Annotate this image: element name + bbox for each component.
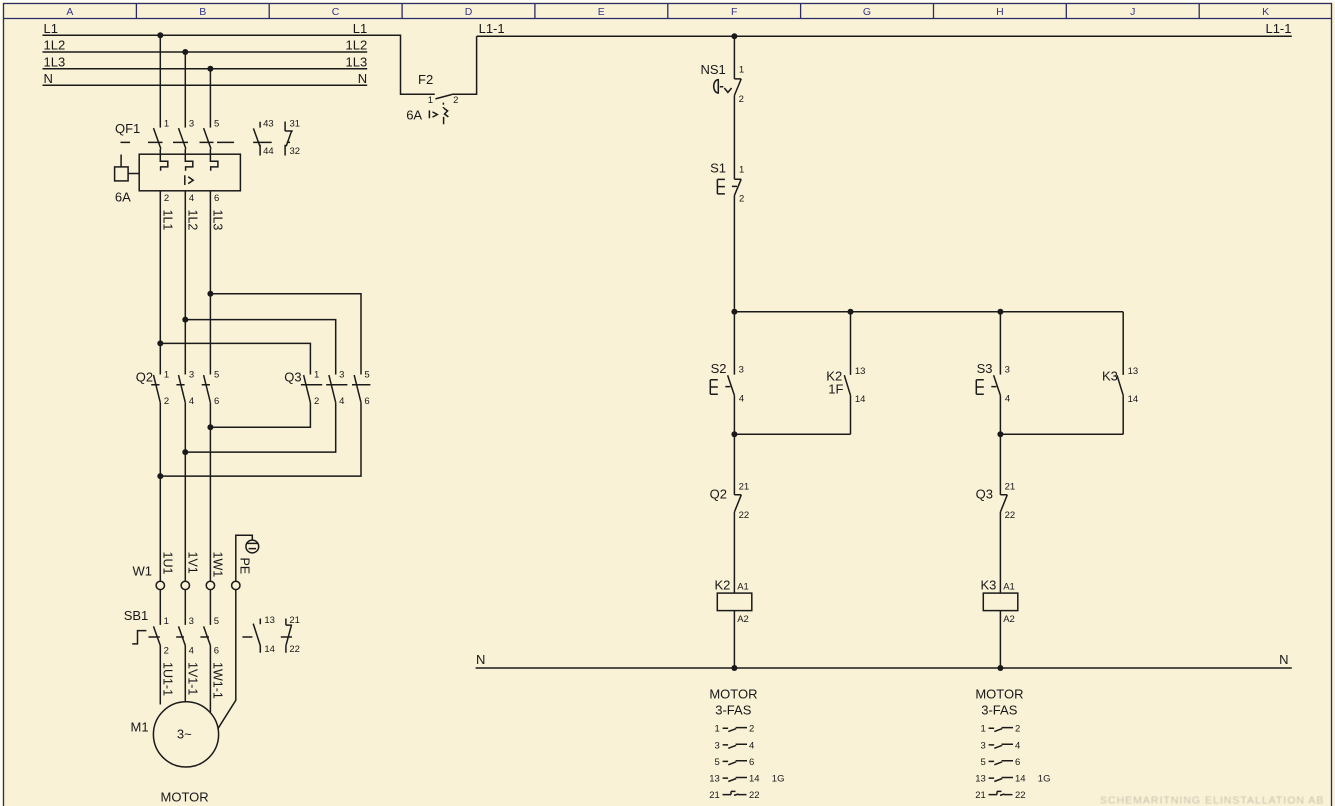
wire L1-1 top rail [477,35,1292,37]
svg-text:Q2: Q2 [710,487,727,502]
wire QF1 pole 2 lower stub [184,149,186,154]
wire S3 to Q3 aux [999,395,1001,494]
node L1 tap junction [157,32,163,38]
terminal W1 circle 1W1 [206,581,214,589]
wire QF1 pole 3 lower stub [209,149,211,154]
svg-text:5: 5 [981,757,986,768]
svg-text:N: N [1279,652,1288,667]
switch NS1 rotary actuator [714,80,719,93]
terminal W1 circle 1V1 [181,581,189,589]
breaker F2 latch hook [444,108,449,124]
svg-text:14: 14 [855,394,866,405]
svg-text:14: 14 [749,774,760,785]
wire control drop to NS1 [733,36,735,79]
node control rail 2 junction H [997,431,1003,437]
svg-text:3-FAS: 3-FAS [981,703,1017,718]
svg-text:E: E [598,6,605,18]
svg-text:6A: 6A [406,108,422,123]
svg-text:21: 21 [975,790,986,801]
crossref K2 mini contact row 5 NC [723,791,747,795]
node crossunder junction 2 [182,449,188,455]
switch SB1 pole 3 blade [204,626,211,645]
wire control rail 2 left [734,433,850,435]
wire 1L3 bus [43,68,368,70]
breaker QF1 I> symbol [185,175,193,185]
svg-text:S3: S3 [977,361,993,376]
svg-text:3: 3 [189,370,194,381]
crossref K3 mini contact row 2 [989,744,1013,748]
svg-text:A: A [66,6,73,18]
wire crossover top 2 [185,320,335,375]
wire QF1 out 1 [159,191,161,375]
svg-text:1V1: 1V1 [185,552,199,574]
switch SB1 pole 2 blade [179,626,186,645]
wire SB1 out 1 to motor [159,646,161,705]
wire QF1 operator link [128,173,139,175]
node crossover tap 1L1 [157,340,163,346]
svg-text:3: 3 [189,616,194,627]
svg-text:5: 5 [214,616,219,627]
wire 1L2 bus [43,51,368,53]
switch NS1 linkage [720,87,732,93]
svg-text:1: 1 [164,370,169,381]
svg-text:QF1: QF1 [115,121,140,136]
svg-text:2: 2 [739,194,744,205]
wire SB1 out 3 to motor [209,646,211,713]
switch S1 pushbutton actuator E [717,179,737,194]
svg-text:1L2: 1L2 [44,38,66,53]
switch SB1 aux contact 13-14 [253,619,260,653]
contactor Q2 pole 3 blade [204,375,211,403]
contactor Q3 pole 2 blade [329,375,336,403]
wire control rail 2 right [1000,433,1123,435]
wire Q3 out 2 crossunder [185,403,335,453]
svg-text:S2: S2 [711,361,727,376]
svg-text:A2: A2 [1003,614,1015,625]
earth symbol PE [246,540,259,553]
wire Q2 aux to K2 coil [733,512,735,593]
svg-text:C: C [332,6,340,18]
svg-text:22: 22 [1015,790,1026,801]
svg-text:6: 6 [1015,757,1020,768]
svg-text:44: 44 [263,146,274,157]
svg-text:2: 2 [164,396,169,407]
breaker QF1 mechanical linkage dashed [121,141,291,143]
wire SB1 in 2 [184,590,186,625]
svg-text:M1: M1 [131,720,149,735]
crossref K3 mini contact row 4 [989,778,1013,782]
svg-text:A1: A1 [737,582,749,593]
crossref K2 mini contact row 2 [723,744,747,748]
svg-text:D: D [465,6,473,18]
svg-text:1: 1 [715,724,720,735]
wire QF1 out 3 [209,191,211,375]
svg-text:Q2: Q2 [136,370,153,385]
contactor Q3 pole 3 blade [354,375,361,403]
svg-text:3: 3 [339,370,344,381]
svg-text:G: G [863,6,871,18]
svg-text:4: 4 [1005,393,1010,404]
breaker QF1 operator box 6A [115,167,129,181]
svg-text:1G: 1G [772,774,785,785]
contactor Q2 pole 1 blade [154,375,161,403]
wire K2 coil to N [733,611,735,668]
wire Q2 out 1 [159,403,161,582]
terminal W1 circle PE [232,581,240,589]
wire SB1 in 1 [159,590,161,625]
svg-text:6: 6 [364,396,369,407]
svg-text:L1-1: L1-1 [1265,21,1291,36]
contact Q2 21-22 NC [734,495,741,512]
svg-text:22: 22 [1005,510,1016,521]
svg-text:22: 22 [289,644,300,655]
node crossunder junction 3 [157,473,163,479]
svg-text:3: 3 [715,740,720,751]
svg-text:1: 1 [739,65,744,76]
svg-text:1V1-1: 1V1-1 [185,662,199,695]
switch S2 pushbutton actuator E [710,380,730,394]
svg-text:4: 4 [749,740,754,751]
wire N bus [43,84,368,86]
svg-text:4: 4 [1015,740,1020,751]
coil K2 [717,593,752,611]
wire L1 bus [43,35,435,94]
svg-text:13: 13 [855,366,866,377]
svg-text:4: 4 [739,393,744,404]
svg-text:3-FAS: 3-FAS [715,703,751,718]
svg-text:4: 4 [189,645,194,656]
wire QF1 pole 1 lower stub [159,149,161,154]
svg-text:6: 6 [214,396,219,407]
svg-text:1: 1 [314,370,319,381]
crossref K2 mini contact row 4 [723,778,747,782]
contact K2 13-14 NO blade [844,375,850,395]
node crossover tap 1L2 [182,317,188,323]
svg-text:1U1-1: 1U1-1 [160,662,174,696]
wire SB1 in 3 [209,590,211,625]
svg-text:21: 21 [739,482,750,493]
svg-text:6A: 6A [115,189,131,204]
wire control rail 1 [734,311,1123,313]
contactor Q3 linkage dashes [301,384,371,386]
svg-text:1: 1 [164,616,169,627]
svg-text:5: 5 [715,757,720,768]
wire phase drop 1 to QF1 [159,35,161,127]
svg-text:2: 2 [749,724,754,735]
contactor Q2 pole 2 blade [179,375,186,403]
svg-text:1L3: 1L3 [44,54,66,69]
wire K3 aux branch drop [1122,312,1124,375]
svg-text:F2: F2 [418,72,433,87]
contact K3 13-14 NO blade [1117,375,1123,395]
svg-text:2: 2 [314,396,319,407]
svg-text:SB1: SB1 [124,608,149,623]
breaker QF1 thermal unit box [139,154,240,191]
wire crossover top 3 [160,343,310,374]
wire Q3 out 3 crossunder [160,403,361,477]
contact Q3 21-22 NC [1000,495,1007,512]
breaker QF1 aux contact 31-32 [285,122,293,156]
svg-text:Q3: Q3 [284,370,301,385]
breaker F2 I> symbol [429,110,437,118]
svg-text:1L1: 1L1 [160,210,174,231]
breaker QF1 overload element 3 [210,154,218,171]
switch SB1 operator handle [132,631,146,644]
wire phase drop 3 to QF1 [209,69,211,128]
terminal W1 circle 1U1 [156,581,164,589]
svg-text:2: 2 [164,645,169,656]
svg-text:N: N [358,71,367,86]
switch SB1 linkage dashed [149,636,293,638]
svg-text:SCHEMARITNING ELINSTALLATION A: SCHEMARITNING ELINSTALLATION AB [1100,795,1324,806]
switch S2 NO blade [728,375,735,395]
wire SB1 out 2 to motor [184,646,186,702]
wire K3 aux branch bottom [1122,395,1124,434]
svg-text:3: 3 [739,365,744,376]
switch S3 NO blade [994,375,1001,395]
crossref K2 mini contact row 1 [723,728,747,732]
svg-text:21: 21 [289,615,300,626]
wire S1 to S2 [733,195,735,374]
svg-text:4: 4 [339,396,344,407]
svg-text:32: 32 [290,146,301,157]
wire S3 branch drop [999,312,1001,375]
svg-text:6: 6 [214,645,219,656]
wire N rail [476,667,1292,669]
svg-text:W1: W1 [133,564,153,579]
svg-text:4: 4 [189,193,194,204]
svg-text:1W1-1: 1W1-1 [210,662,224,699]
node crossover tap 1L3 [207,291,213,297]
svg-text:K: K [1262,6,1269,18]
svg-text:MOTOR: MOTOR [975,687,1023,702]
switch S1 NC contact [734,179,741,195]
svg-text:43: 43 [263,119,274,130]
crossref K2 mini contact row 3 [723,761,747,765]
svg-text:K3: K3 [981,577,997,592]
svg-text:1L3: 1L3 [210,210,224,231]
svg-text:6: 6 [214,193,219,204]
svg-text:4: 4 [189,396,194,407]
svg-text:21: 21 [1005,482,1016,493]
svg-text:MOTOR: MOTOR [709,687,757,702]
svg-text:Q3: Q3 [976,487,993,502]
svg-text:3: 3 [189,119,194,130]
svg-text:1L2: 1L2 [345,38,367,53]
breaker QF1 overload element 2 [185,154,193,171]
svg-text:A2: A2 [737,614,749,625]
motor M1 circle [153,702,218,767]
svg-text:2: 2 [164,193,169,204]
wire Q3 out 1 crossunder [210,403,310,428]
svg-text:NS1: NS1 [701,62,726,77]
wire crossover top 1 [210,294,361,375]
switch SB1 aux contact 21-22 [286,619,292,653]
svg-text:14: 14 [1015,774,1026,785]
wire K3 coil to N [999,611,1001,668]
svg-text:J: J [1130,6,1135,18]
wire PE riser [236,535,253,581]
node control rail 2 junction F [731,431,737,437]
svg-text:2: 2 [1015,724,1020,735]
svg-text:K2: K2 [715,577,731,592]
node N rail junction H [997,665,1003,671]
svg-text:6: 6 [749,757,754,768]
node 1L2 tap junction [182,49,188,55]
wire Q2 out 2 [184,403,186,582]
svg-text:1F: 1F [828,382,843,397]
contactor Q2 linkage dashes [151,384,210,386]
switch NS1 NC contact [734,79,741,96]
wire Q2 out 3 [209,403,211,582]
svg-text:H: H [996,6,1004,18]
wire K2 aux branch drop [850,312,852,375]
switch SB1 pole 1 blade [154,626,161,645]
crossref K3 mini contact row 1 [989,728,1013,732]
node 1L3 tap junction [207,66,213,72]
svg-text:S1: S1 [710,161,726,176]
node L1-1 junction F column [731,33,737,39]
wire K2 aux branch bottom [850,395,852,434]
svg-text:21: 21 [709,790,720,801]
node control rail 1 junction H [997,309,1003,315]
coil K3 [983,593,1018,611]
svg-text:2: 2 [453,95,458,106]
svg-text:1W1: 1W1 [210,552,224,578]
wire PE down to motor [218,590,236,729]
svg-text:3: 3 [1005,365,1010,376]
svg-text:22: 22 [749,790,760,801]
breaker QF1 overload element 1 [160,154,168,171]
node crossunder junction 1 [207,424,213,430]
svg-text:PE: PE [237,558,251,575]
svg-text:13: 13 [709,774,720,785]
fuse breaker F2 blade [435,95,451,99]
svg-text:14: 14 [1128,394,1139,405]
svg-text:5: 5 [364,370,369,381]
svg-text:2: 2 [739,94,744,105]
contactor Q3 pole 1 blade [304,375,311,403]
svg-text:K3: K3 [1102,369,1118,384]
crossref K3 mini contact row 3 [989,761,1013,765]
wire phase drop 2 to QF1 [184,52,186,128]
svg-text:1: 1 [981,724,986,735]
svg-text:31: 31 [290,119,301,130]
breaker QF1 pole 2 blade [179,128,186,149]
svg-text:L1-1: L1-1 [479,21,505,36]
svg-text:14: 14 [264,644,275,655]
svg-text:A1: A1 [1003,582,1015,593]
svg-text:3~: 3~ [177,727,192,742]
wire F2 out to L1-1 rail [452,36,477,94]
breaker QF1 pole 3 blade [204,128,211,149]
svg-text:1L2: 1L2 [185,210,199,231]
wire Q3 aux to K3 coil [999,512,1001,593]
node control rail 1 junction F [731,309,737,315]
svg-text:3: 3 [981,740,986,751]
svg-text:1G: 1G [1038,774,1051,785]
svg-text:13: 13 [975,774,986,785]
crossref K3 mini contact row 5 NC [989,791,1013,795]
breaker QF1 operator stub [120,155,122,167]
wire NS1 to S1 [733,95,735,179]
svg-text:13: 13 [1128,366,1139,377]
svg-text:1: 1 [739,165,744,176]
svg-text:L1: L1 [353,21,367,36]
svg-text:N: N [44,71,53,86]
svg-text:5: 5 [214,119,219,130]
breaker F2 latch dashed stub [442,103,444,108]
svg-text:1L3: 1L3 [345,54,367,69]
breaker QF1 pole 1 blade [154,128,161,149]
svg-text:13: 13 [264,615,275,626]
svg-text:F: F [731,6,737,18]
switch S3 pushbutton actuator E [976,380,996,394]
svg-text:B: B [199,6,206,18]
svg-text:1: 1 [164,119,169,130]
svg-text:N: N [476,652,485,667]
svg-text:L1: L1 [44,21,58,36]
node control rail 1 junction G [848,309,854,315]
breaker QF1 aux contact 43-44 [253,122,260,156]
svg-text:5: 5 [214,370,219,381]
svg-text:1U1: 1U1 [160,552,174,575]
svg-text:22: 22 [739,510,750,521]
wire QF1 out 2 [184,191,186,375]
svg-text:1: 1 [428,95,433,106]
wire S2 to Q2 aux [733,395,735,494]
node N rail junction F [731,665,737,671]
